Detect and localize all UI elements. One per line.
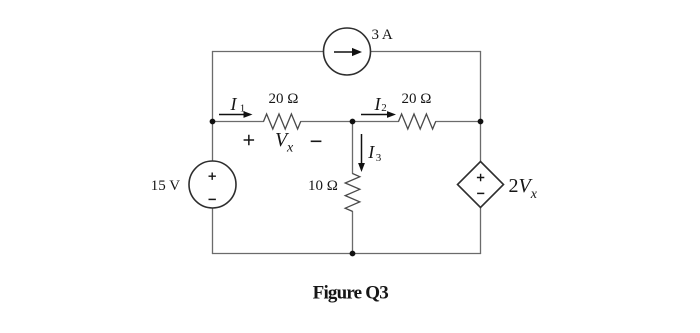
svg-text:2Vx: 2Vx xyxy=(509,175,538,202)
voltage source V1 15V circle xyxy=(189,161,236,208)
wire top-right segment xyxy=(371,51,481,53)
dependent source E1 2Vx diamond xyxy=(458,162,504,208)
label Vx minus polarity xyxy=(311,140,322,142)
current source I1src 3A circle xyxy=(324,28,371,75)
node D dot (bottom center) xyxy=(350,251,356,257)
resistor R1 20ohm zigzag xyxy=(264,114,301,129)
svg-text:I: I xyxy=(367,142,375,162)
current source arrow xyxy=(334,48,362,56)
wire top-left segment xyxy=(213,51,324,53)
svg-text:2: 2 xyxy=(381,102,387,114)
E1 plus sign xyxy=(477,174,484,181)
wire center vertical upper xyxy=(352,122,354,174)
wire mid rail right of R2 xyxy=(436,121,481,123)
svg-text:20 Ω: 20 Ω xyxy=(402,91,432,107)
node B dot (center mid) xyxy=(350,119,356,125)
svg-text:3: 3 xyxy=(376,152,382,164)
wire left rail upper xyxy=(212,52,214,162)
svg-text:Figure Q3: Figure Q3 xyxy=(313,283,389,304)
label Vx plus polarity xyxy=(244,135,255,145)
current arrow I3 xyxy=(358,134,365,172)
wire bottom rail xyxy=(213,253,481,255)
E1 minus sign xyxy=(477,192,484,194)
wire mid rail center node to R2 xyxy=(353,121,399,123)
V1 plus sign xyxy=(209,173,216,180)
current arrow I2 xyxy=(361,111,396,118)
wire center vertical lower xyxy=(352,212,354,254)
wire left rail lower xyxy=(212,208,214,254)
node C dot (right mid) xyxy=(478,119,484,125)
resistor R3 10ohm zigzag vertical xyxy=(345,174,360,212)
svg-text:I: I xyxy=(230,94,238,114)
V1 minus sign xyxy=(209,198,216,200)
current arrow I1 xyxy=(219,111,253,118)
svg-text:15 V: 15 V xyxy=(151,178,180,194)
wire mid rail R1 to center node xyxy=(301,121,353,123)
svg-text:3 A: 3 A xyxy=(372,27,393,43)
svg-text:x: x xyxy=(286,141,294,156)
svg-text:1: 1 xyxy=(240,103,246,115)
svg-text:10 Ω: 10 Ω xyxy=(308,178,338,194)
svg-text:20 Ω: 20 Ω xyxy=(269,91,299,107)
wire mid rail left of R1 xyxy=(213,121,264,123)
resistor R2 20ohm zigzag xyxy=(399,114,436,129)
node A dot (left mid) xyxy=(210,119,216,125)
wire right rail lower xyxy=(480,208,482,254)
wire right rail upper xyxy=(480,52,482,162)
